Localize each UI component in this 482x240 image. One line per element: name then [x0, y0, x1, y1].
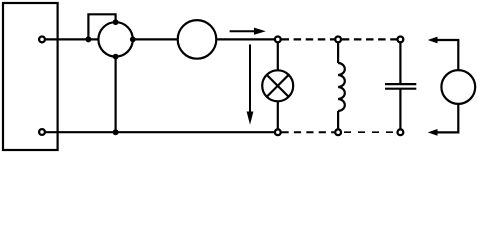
- wire motor bottom lead: [437, 104, 459, 132]
- node lamp bottom: [275, 129, 281, 135]
- voltage arrow downward: [247, 45, 254, 125]
- junction dot left of machine: [85, 36, 91, 42]
- wire bottom rail: [44, 131, 278, 133]
- wire generator to lamp node: [216, 38, 278, 40]
- brush dot bottom of machine: [113, 54, 119, 60]
- generator G circle: [178, 20, 217, 59]
- wire bypass loop over machine: [88, 14, 115, 39]
- node inductor top: [335, 37, 341, 43]
- capacitor plate top: [385, 83, 416, 85]
- arrowhead motor bottom: [428, 129, 438, 136]
- wire machine to generator: [133, 38, 178, 40]
- wire machine bottom to bottom rail: [114, 57, 116, 133]
- wire capacitor top stub: [399, 39, 401, 83]
- terminal bottom of source box: [39, 129, 45, 135]
- energy source box: [3, 3, 58, 150]
- motor circle: [441, 70, 475, 104]
- wire top rail: terminal to machine: [44, 38, 99, 40]
- terminal top of source box: [39, 37, 45, 43]
- wire lamp branch: [277, 39, 279, 132]
- brush dot right of machine: [130, 37, 136, 43]
- dashed wire bottom rail segment 2: [344, 131, 394, 133]
- node capacitor top: [398, 37, 404, 43]
- arrowhead motor top: [428, 37, 438, 44]
- lamp circle: [262, 70, 293, 101]
- wire capacitor bottom stub: [399, 90, 401, 133]
- wire inductor bottom stub: [337, 111, 339, 132]
- dashed wire top rail segment 2: [342, 38, 397, 40]
- node inductor bottom: [335, 129, 341, 135]
- current direction arrow: [230, 28, 266, 35]
- capacitor plate bottom: [385, 88, 416, 90]
- lamp cross stroke 2: [267, 75, 289, 97]
- junction dot on bottom rail: [113, 129, 119, 135]
- wire motor top lead: [437, 40, 459, 70]
- node capacitor bottom: [398, 129, 404, 135]
- inductor coil: [338, 63, 345, 111]
- dashed wire top rail segment 1: [282, 38, 335, 40]
- lamp cross stroke 1: [267, 75, 289, 97]
- wire inductor top stub: [337, 39, 339, 63]
- dashed wire bottom rail segment 1: [282, 131, 335, 133]
- brush dot top of machine: [113, 19, 119, 25]
- machine M1 circle: [98, 22, 132, 56]
- node lamp top: [275, 37, 281, 43]
